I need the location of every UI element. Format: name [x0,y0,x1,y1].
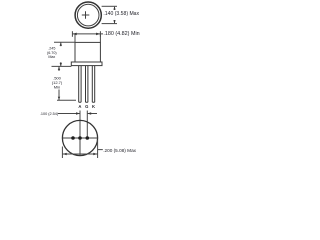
lead 1 (A) [79,66,81,103]
left dimension tick at lead ends [57,99,76,101]
svg-text:K: K [92,104,95,109]
bottom view lead line (horizontal chord) [62,137,97,139]
dimension H2 upper stub with arrow [58,66,60,71]
dimension D2 right arrowhead [96,33,100,36]
dimension D3 left extension line (circle left tangent) [61,147,63,159]
dimension D1 arrow up [114,7,116,10]
svg-text:.200 (5.08) Max: .200 (5.08) Max [103,148,136,153]
dimension D3 leader line [98,149,103,151]
svg-text:A: A [78,104,81,109]
dimension P1 extension line at right lead [86,111,88,139]
dimension D1 arrow down [114,20,116,23]
bottom view lead dot A [71,136,75,140]
dimension P1 right line with left arrow [88,113,97,115]
side view flange [71,62,102,66]
dimension D2 left tick [71,31,73,37]
left dimension tick at seating plane [52,65,72,67]
dimension H1 lower stub with arrow [60,62,62,66]
dimension P1 left line with right arrow [58,113,80,115]
dimension D1 extension line top (cap top tangent) [102,5,117,7]
svg-text:.180 (4.82) Min: .180 (4.82) Min [103,31,139,37]
dimension D1 extension line bottom (cap bottom tangent) [102,23,117,25]
dimension H1 upper stub with arrow [60,42,62,46]
svg-text:.140 (3.58) Max: .140 (3.58) Max [103,11,139,17]
side view can body [75,42,100,62]
lead 2 (G) [86,66,88,103]
svg-text:Min: Min [54,85,60,90]
bottom view lead dot G [78,136,82,140]
svg-text:G: G [85,104,88,109]
svg-text:.100 (2.54): .100 (2.54) [40,112,59,116]
left dimension tick at can top [54,41,76,43]
dimension D3 line (bottom circle diameter) [62,153,97,155]
top view outer circle (can rim) [75,2,101,28]
projection line left (circle to can top) [74,34,76,43]
dimension H2 lower stub with arrow [58,90,60,101]
top view center cross mark [82,11,90,18]
bottom view circle [62,120,97,155]
svg-text:Max: Max [48,55,55,59]
dimension D2 left arrowhead [73,33,77,36]
dimension D3 right extension line (circle right tangent) [97,140,99,158]
dimension D3 right arrowhead [93,153,97,156]
bottom view lead dot K [86,136,90,140]
dimension D2 line (can diameter, below top view) [72,33,103,35]
dimension P1 extension line at center lead [79,111,81,139]
top view inner circle (cap) [77,4,99,26]
dimension D2 right tick [99,31,101,37]
bottom view center line down [79,138,81,156]
lead 3 (K) [92,66,94,103]
projection line right (circle to can top) [99,34,101,43]
dimension D3 left arrowhead [63,153,67,156]
